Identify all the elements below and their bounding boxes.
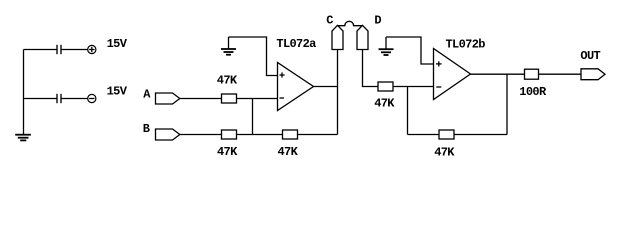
terminal circle -15V with minus sign	[88, 94, 96, 102]
wire supply vertical bus	[23, 50, 25, 135]
wire ground to U1a non-inverting input	[229, 37, 278, 76]
svg-text:15V: 15V	[107, 37, 128, 51]
svg-text:B: B	[143, 122, 150, 136]
wire R5 to output junction	[454, 134, 507, 136]
wire R2 to summing node	[237, 134, 283, 136]
capacitor C1 (+15V rail)	[57, 45, 61, 54]
wire U1a output to node	[314, 86, 338, 88]
wire capacitor C2 to -15V terminal	[62, 98, 88, 100]
resistor R5 47K (feedback U1b)	[439, 130, 454, 139]
wire capacitor C1 to +15V terminal	[62, 49, 88, 51]
resistor R1 47K (input A)	[222, 94, 237, 103]
wire R6 to OUT connector	[539, 73, 582, 75]
svg-text:47K: 47K	[374, 97, 395, 111]
wire feedback vertical to U1b output	[506, 74, 508, 134]
ground (supply)	[15, 135, 31, 141]
node A connector	[156, 93, 180, 104]
svg-text:C: C	[326, 13, 333, 27]
wire U1b feedback junction vertical	[407, 87, 409, 135]
resistor R6 100R (output)	[525, 69, 539, 79]
jumper link C-D	[338, 21, 362, 25]
svg-text:TL072b: TL072b	[446, 38, 486, 52]
svg-text:D: D	[374, 13, 381, 27]
svg-text:A: A	[143, 87, 151, 101]
svg-text:15V: 15V	[107, 85, 128, 99]
wire A to R1	[180, 98, 222, 100]
resistor R4 47K (U1b input)	[378, 82, 393, 91]
capacitor C2 (-15V rail)	[57, 94, 61, 103]
svg-text:47K: 47K	[217, 145, 238, 159]
ground (U1a non-inverting)	[221, 37, 236, 55]
svg-text:47K: 47K	[217, 74, 238, 88]
op-amp U1a TL072a	[278, 63, 314, 111]
wire B to R2	[180, 134, 222, 136]
pin D connector	[357, 25, 368, 49]
svg-text:TL072a: TL072a	[276, 37, 316, 51]
terminal circle +15V with plus sign	[88, 45, 96, 53]
svg-text:47K: 47K	[278, 145, 299, 159]
resistor R2 47K (input B)	[222, 130, 237, 139]
wire feedback to R5	[408, 134, 440, 136]
node B connector	[156, 129, 180, 140]
pin C connector	[332, 25, 343, 49]
wire junction summing node vertical	[252, 99, 254, 135]
svg-text:OUT: OUT	[580, 49, 600, 63]
node OUT connector	[581, 69, 605, 80]
wire +15V rail top horizontal left segment	[24, 49, 57, 51]
svg-text:47K: 47K	[434, 145, 455, 159]
wire pin D to R4	[363, 50, 379, 87]
wire -15V rail horizontal left segment	[24, 98, 57, 100]
wire R3 to output node	[298, 134, 338, 136]
resistor R3 47K (feedback U1a)	[283, 130, 298, 139]
ground (U1b non-inverting)	[379, 37, 394, 55]
svg-text:100R: 100R	[519, 85, 547, 99]
wire R4 to U1b inverting input	[393, 86, 434, 88]
wire output node vertical (pin C / feedback)	[337, 50, 339, 135]
wire ground to U1b non-inverting input	[386, 37, 434, 64]
wire U1b output to R6	[471, 73, 525, 75]
op-amp U1b TL072b	[434, 49, 471, 100]
wire R1 to U1a inverting input	[237, 98, 278, 100]
